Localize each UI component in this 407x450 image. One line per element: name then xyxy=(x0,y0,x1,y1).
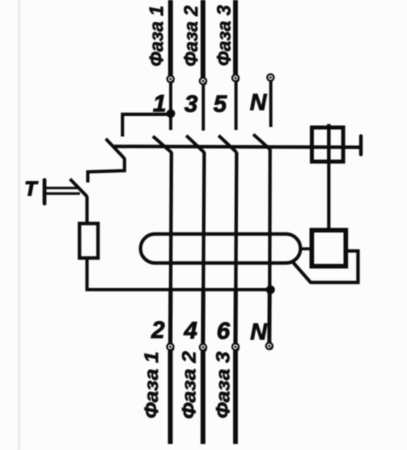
trip coil square xyxy=(312,124,343,162)
wire from node1 to trip linkage xyxy=(123,114,171,136)
svg-text:N: N xyxy=(250,89,267,115)
svg-text:3: 3 xyxy=(184,91,198,118)
wire N lower xyxy=(268,149,272,289)
toroid core xyxy=(141,234,301,263)
terminal circle 6 xyxy=(232,344,239,351)
wire stub below circle 1 xyxy=(169,82,172,130)
wire test contact to resistor xyxy=(85,197,88,225)
wire stub below circle 5 xyxy=(234,81,237,130)
terminal circle 5 xyxy=(232,75,239,82)
wire staircase to test contact xyxy=(88,158,125,183)
junction dot N bottom xyxy=(266,285,275,294)
wire toroid to relay xyxy=(301,247,312,250)
switch blade pole 2 xyxy=(186,136,204,153)
svg-text:Фаза 2: Фаза 2 xyxy=(182,5,203,66)
switch blade linkage left xyxy=(106,139,125,159)
wire phase2 lower xyxy=(202,152,206,289)
wire stub below circle 3 xyxy=(202,84,205,131)
svg-text:T: T xyxy=(25,179,39,201)
wire phase1 top xyxy=(168,0,173,79)
wire phase1 bottom xyxy=(168,351,173,445)
terminal circle N top xyxy=(267,74,274,81)
resistor xyxy=(80,224,99,259)
wire stub below circle N xyxy=(269,81,272,127)
svg-text:4: 4 xyxy=(183,318,197,345)
test switch blade xyxy=(70,179,87,197)
svg-text:5: 5 xyxy=(213,91,227,118)
wire phase2 bottom xyxy=(201,351,206,444)
test button bar xyxy=(43,180,47,204)
svg-text:Фаза 1: Фаза 1 xyxy=(147,6,168,67)
svg-text:N: N xyxy=(250,319,267,345)
wire resistor down xyxy=(87,258,270,290)
switch blade pole 1 xyxy=(153,136,172,152)
wire coil to relay xyxy=(327,162,330,231)
terminal circle 3 xyxy=(200,78,207,85)
wire relay output loop xyxy=(293,251,359,283)
wire phase3 lower xyxy=(234,152,238,289)
terminal circle 1 xyxy=(167,76,174,83)
terminal circle 4 xyxy=(200,344,207,351)
svg-text:Фаза 1: Фаза 1 xyxy=(142,352,163,419)
faint scan seam line xyxy=(18,0,21,450)
svg-text:Фаза 2: Фаза 2 xyxy=(180,351,201,419)
switch bus bar xyxy=(114,145,361,149)
test button link lines xyxy=(46,187,81,190)
svg-text:6: 6 xyxy=(217,318,231,345)
switch blade pole N xyxy=(253,134,270,149)
junction dot node 1 xyxy=(166,109,175,118)
wire phase3 bottom xyxy=(233,351,238,445)
terminal bar right xyxy=(359,136,363,155)
terminal circle 2 xyxy=(167,344,174,351)
wire phase2 top xyxy=(201,0,206,81)
switch blade pole 3 xyxy=(219,136,237,153)
wire phase3 top xyxy=(233,0,238,78)
svg-text:Фаза 3: Фаза 3 xyxy=(214,351,235,418)
relay block xyxy=(312,230,346,266)
wire phase1 lower xyxy=(169,152,173,289)
svg-text:2: 2 xyxy=(150,317,165,344)
svg-text:Фаза 3: Фаза 3 xyxy=(215,5,236,66)
terminal circle N bottom xyxy=(266,343,273,350)
